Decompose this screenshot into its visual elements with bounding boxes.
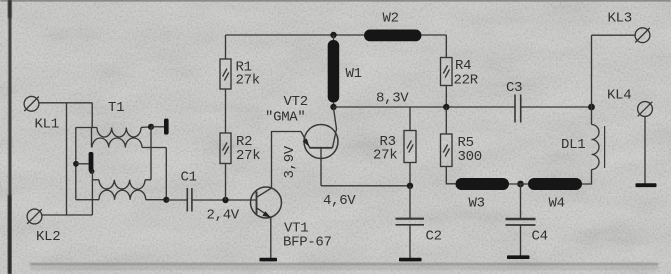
wire node D to C1 [166,199,187,201]
svg-text:T1: T1 [108,100,124,116]
svg-text:300: 300 [458,149,482,165]
wire KL4 to ground [644,116,646,184]
transistor VT1 [251,187,282,218]
svg-text:BFP-67: BFP-67 [283,235,332,251]
wire R3 top lead [409,107,411,131]
wire R4 bottom lead [445,86,447,108]
svg-text:C4: C4 [532,229,548,245]
svg-text:27k: 27k [373,148,397,164]
wire winding2 right lead [142,147,166,149]
svg-text:22R: 22R [454,73,479,89]
wire KL2 to T1 [42,214,93,216]
svg-text:W4: W4 [549,196,565,212]
svg-text:3,9V: 3,9V [282,145,298,178]
transformer T1 winding 3 [99,180,145,189]
ground C2 [399,258,422,262]
bar electrode right (T1 tap) [164,119,169,135]
wire C2 bottom lead [409,225,411,258]
wire R1 top lead [225,35,227,59]
resistor R1 [220,59,231,89]
transformer T1 winding 1 [97,128,141,138]
wire R1-R2 link [225,89,227,133]
transformer T1 winding 2 [92,138,142,148]
wire 8.3V rail [334,106,516,108]
terminal KL4 [638,102,653,117]
wire KL3 vertical [591,35,593,107]
node K (KL3/DL1 dot) [588,104,595,111]
inductor DL1 [582,107,605,184]
wire R5 top lead [445,107,447,134]
svg-text:C3: C3 [506,80,522,96]
wire tap stub to bar [76,163,89,165]
wire KL3 horizontal [592,34,636,36]
svg-text:W2: W2 [383,11,399,27]
wire winding1 right lead [141,126,151,129]
wire winding3 right lead [145,179,151,181]
wire left rail KL1-KL2 [66,103,68,215]
stripline W1 [328,40,340,103]
svg-text:C1: C1 [181,170,197,186]
wire node C down to winding3 right [150,127,152,180]
wire R4 top lead [445,35,447,58]
svg-text:KL3: KL3 [608,11,632,27]
svg-text:8,3V: 8,3V [376,91,409,107]
svg-text:KL1: KL1 [35,117,59,133]
transformer T1 winding 4 [99,190,146,200]
svg-text:2,4V: 2,4V [207,208,240,224]
stripline W3 [456,178,510,190]
node B (below left bar) [89,169,94,174]
wire VT1 collector up [272,132,302,189]
node A (tap dot on inner rail) [73,161,79,167]
scan artifact: top edge line [0,0,671,1]
wire R5 bottom lead [446,167,455,184]
stripline W4 [528,178,582,190]
capacitor C2 [396,219,425,225]
scan artifact: bottom shadow band [30,263,658,266]
resistor R5 [441,134,453,167]
ground VT1 [260,258,278,262]
wire C1 to VT1 base [192,199,257,201]
svg-text:W3: W3 [469,196,485,212]
svg-text:KL2: KL2 [36,229,60,245]
bar electrode left (T1 tap) [89,152,94,172]
wire C2 top lead [409,186,411,219]
transistor VT2 [301,108,338,159]
ground KL4 [636,183,657,187]
wire winding1-winding2 left link [91,128,93,148]
wire winding3 left lead [92,179,99,181]
capacitor C3 [515,95,521,123]
wire winding4 right lead [146,199,167,201]
terminal KL3 [635,28,650,43]
stripline W2 [364,30,422,42]
wire left inner rail [75,128,77,200]
wire VT2 base down [320,148,322,186]
wire R3 bottom lead [409,163,411,186]
svg-text:27k: 27k [236,73,260,89]
node F (rail dot at W1) [330,32,336,38]
wire winding2 right down [165,148,167,201]
svg-text:DL1: DL1 [561,137,585,153]
wire KL1 down to winding 1 [91,103,93,128]
capacitor C1 [187,188,192,212]
node I (R4/R5 dot) [443,104,449,110]
terminal KL2 [27,209,42,224]
wire C4 top lead [520,184,522,219]
wire stub to right bar [151,126,164,128]
wire VT1 emitter down [270,218,272,259]
wire C4 bottom lead [520,225,522,256]
wire W1 bottom stub [333,102,335,107]
wire C3 to node K [521,106,592,108]
svg-text:KL4: KL4 [607,88,631,104]
wire R2 bottom lead [225,164,227,201]
terminal KL1 [24,96,39,111]
capacitor C4 [506,219,536,225]
node D (T1 output dot) [163,197,169,203]
svg-text:VT2: VT2 [284,94,308,110]
node J (W3/W4 dot) [517,181,524,188]
resistor R3 [404,131,416,163]
ground C4 [507,255,530,259]
scan artifact: left page edge line [8,0,11,274]
svg-text:4,6V: 4,6V [323,193,356,209]
svg-text:27k: 27k [236,148,260,164]
wire winding3/4 left vertical down to KL2 wire [91,171,93,215]
top supply rail [226,34,447,36]
node E (VT1 base / R2 dot) [222,197,228,203]
wire KL1 to T1 [39,102,93,104]
resistor R4 [441,58,453,86]
wire W3-dot-W4 link [509,183,528,185]
wire W1 top stub [333,35,335,41]
svg-text:C2: C2 [426,229,442,245]
wire winding4 left lead [76,199,99,201]
node H (R3/C2 dot) [407,183,413,189]
wire 4.6V net [321,185,410,187]
svg-text:W1: W1 [346,66,362,82]
node C (T1 top right dot) [148,124,154,130]
resistor R2 [220,133,231,164]
wire winding1 left lead [76,127,97,129]
svg-text:"GMA": "GMA" [265,110,306,126]
node G (W1 bottom dot) [330,104,336,110]
